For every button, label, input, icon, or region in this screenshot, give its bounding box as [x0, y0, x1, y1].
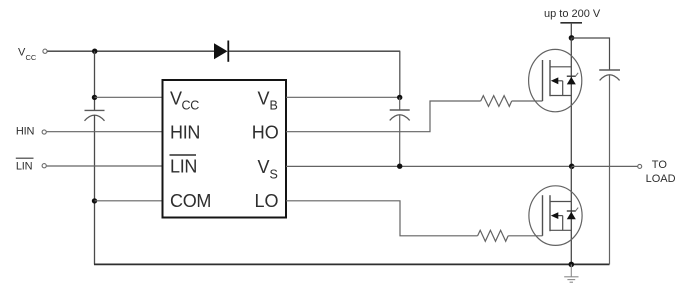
wire left column vertical (Vcc down to C1) — [94, 51, 96, 110]
terminal circle HIN — [42, 130, 46, 134]
svg-text:CC: CC — [182, 99, 200, 113]
resistor R1 top gate — [481, 96, 512, 107]
wire HV node to bus capacitor branch — [572, 38, 610, 70]
svg-text:B: B — [270, 99, 278, 113]
node Vcc junction at left column — [92, 49, 97, 54]
terminal circle LIN — [42, 164, 46, 168]
svg-text:LO: LO — [255, 191, 279, 211]
svg-text:HIN: HIN — [16, 126, 35, 138]
diode body diode of Q1 — [567, 73, 578, 85]
svg-text:up to 200 V: up to 200 V — [544, 8, 601, 20]
wire R2 to Q2 gate — [508, 235, 542, 237]
wire COM pin — [95, 200, 163, 202]
wire bus capacitor to ground rail — [609, 75, 611, 265]
wire supply bar to HV node — [570, 23, 572, 38]
wire HO pin with jog up to gate row — [286, 101, 481, 132]
svg-text:V: V — [258, 89, 270, 109]
wire left column vertical (C1 down to COM node, crossing HIN/LIN) — [94, 115, 96, 264]
transistor Q2 low-side MOSFET — [529, 186, 582, 246]
wire bootstrap column (C2 down to VS node) — [399, 115, 401, 167]
wire switch node to TO LOAD terminal — [572, 165, 638, 167]
svg-text:LOAD: LOAD — [646, 173, 676, 185]
pin label VCC — [170, 89, 199, 113]
wire drain column Q2 (switch node to ground node) — [570, 166, 572, 264]
svg-text:COM: COM — [170, 191, 211, 211]
capacitor C2 bootstrap — [390, 110, 410, 120]
resistor R2 bottom gate — [478, 230, 509, 241]
node VCC pin junction — [92, 95, 97, 100]
svg-text:HO: HO — [252, 122, 279, 142]
terminal circle Vcc — [43, 49, 47, 53]
wire R1 to Q1 gate — [512, 100, 543, 102]
ground — [564, 264, 578, 282]
svg-text:TO: TO — [652, 159, 668, 171]
node VS junction — [397, 164, 402, 169]
svg-text:CC: CC — [26, 53, 37, 62]
diode body diode of Q2 — [567, 208, 578, 220]
wire VS pin to switch node — [286, 165, 572, 167]
node COM junction — [92, 198, 97, 203]
node switch node junction — [569, 164, 575, 170]
terminal label Vcc — [18, 47, 37, 63]
pin label VS — [258, 157, 278, 181]
svg-text:LIN: LIN — [170, 157, 197, 177]
transistor Q1 high-side MOSFET — [529, 49, 582, 111]
wire bootstrap column (VB node to C2) — [399, 97, 401, 110]
terminal label LIN with overline — [16, 158, 34, 172]
svg-text:S: S — [270, 168, 278, 182]
capacitor C1 Vcc bypass — [85, 110, 105, 120]
wire LIN — [47, 165, 162, 167]
wire diode cathode to bootstrap column corner — [229, 50, 400, 52]
svg-text:V: V — [170, 89, 182, 109]
wire VB pin to bootstrap node — [286, 96, 400, 98]
wire VCC pin — [95, 96, 163, 98]
svg-text:V: V — [258, 157, 270, 177]
terminal label TO LOAD — [646, 159, 676, 185]
capacitor C3 bus — [599, 70, 620, 80]
svg-text:HIN: HIN — [170, 122, 200, 142]
supply terminal bar — [560, 22, 582, 24]
pin label LIN with overline — [170, 155, 198, 177]
pin label VB — [258, 89, 278, 113]
wire bottom return rail — [94, 263, 610, 265]
node HV rail junction — [569, 35, 575, 41]
node ground junction — [569, 262, 575, 268]
op-amp U1 gate driver IC box — [163, 80, 287, 218]
node VB junction — [397, 95, 402, 100]
diode D1 bootstrap — [214, 41, 228, 62]
terminal circle TO LOAD — [638, 164, 642, 168]
wire LO pin with jog down to gate row — [286, 201, 478, 236]
wire Vcc top rail (terminal to diode anode) — [47, 50, 214, 52]
wire HIN — [47, 131, 162, 133]
svg-text:LIN: LIN — [16, 161, 33, 173]
wire drain column Q1 (HV node to switch node) — [570, 38, 572, 167]
